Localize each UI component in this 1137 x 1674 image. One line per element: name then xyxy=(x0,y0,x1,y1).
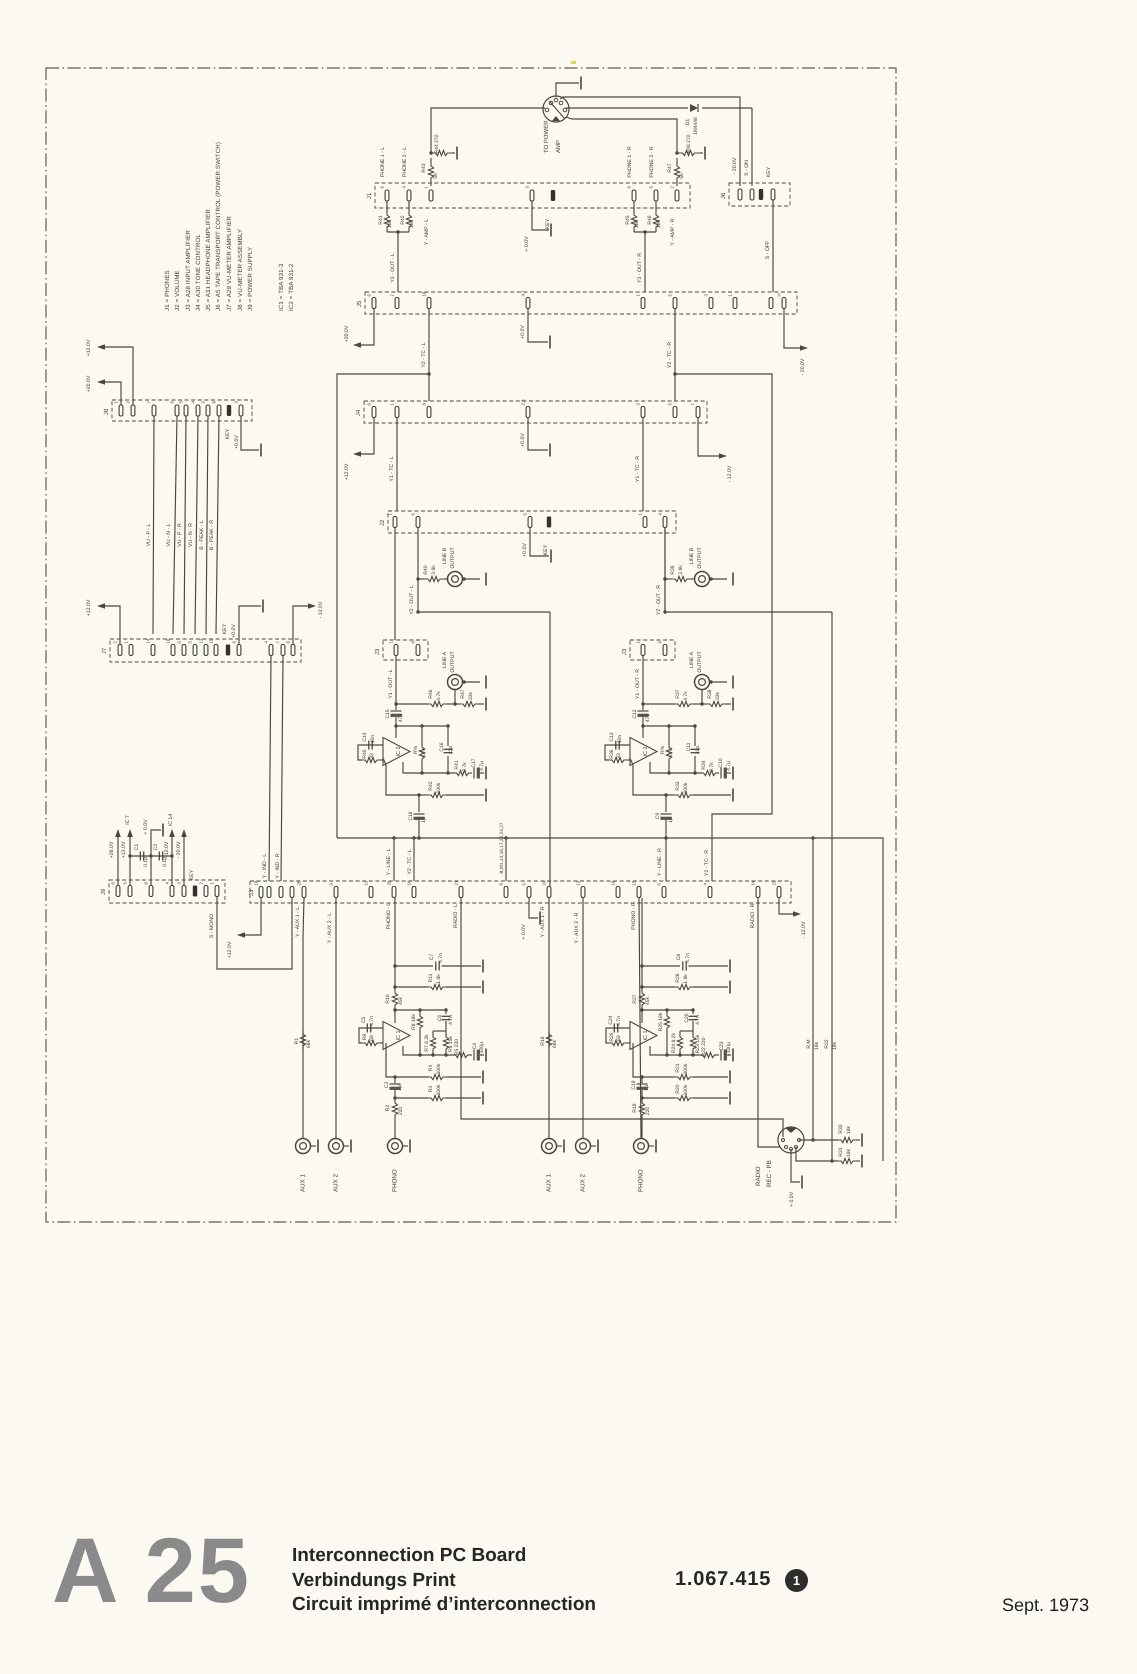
svg-text:J2 = VOLUME: J2 = VOLUME xyxy=(174,270,181,311)
svg-text:RADIO - L: RADIO - L xyxy=(453,904,459,928)
svg-text:R43: R43 xyxy=(421,163,427,172)
svg-text:18k: 18k xyxy=(846,1125,852,1134)
svg-text:1N4448: 1N4448 xyxy=(693,117,699,135)
svg-text:4.7n: 4.7n xyxy=(685,953,691,963)
svg-text:33k: 33k xyxy=(468,691,474,700)
svg-text:4.7k: 4.7k xyxy=(421,748,427,758)
svg-text:+12.0V: +12.0V xyxy=(227,941,233,958)
svg-text:18k: 18k xyxy=(846,1148,852,1157)
svg-text:J4 = A30 TONE CONTROL: J4 = A30 TONE CONTROL xyxy=(195,234,202,311)
svg-text:Y2 - TC - R: Y2 - TC - R xyxy=(704,850,710,876)
svg-text:10: 10 xyxy=(422,291,427,296)
svg-text:1: 1 xyxy=(389,641,394,644)
svg-text:6: 6 xyxy=(232,641,237,644)
svg-text:14: 14 xyxy=(751,880,756,885)
svg-text:100k: 100k xyxy=(436,1063,442,1074)
svg-text:J5: J5 xyxy=(356,300,363,307)
svg-text:+20.0V: +20.0V xyxy=(344,325,350,342)
svg-text:4.7n: 4.7n xyxy=(448,1015,454,1025)
svg-text:+12.0V: +12.0V xyxy=(344,463,350,480)
svg-text:VU - P - L: VU - P - L xyxy=(146,524,152,547)
svg-text:Y1 - TC - R: Y1 - TC - R xyxy=(635,456,641,482)
svg-text:8: 8 xyxy=(499,883,504,886)
svg-text:1µ: 1µ xyxy=(397,1085,403,1091)
svg-text:AMP: AMP xyxy=(555,140,562,153)
svg-text:R21: R21 xyxy=(675,1063,681,1072)
svg-text:1: 1 xyxy=(636,641,641,644)
svg-text:KEY: KEY xyxy=(225,428,231,439)
svg-text:Y2 - TC - L: Y2 - TC - L xyxy=(421,342,427,367)
svg-text:24: 24 xyxy=(542,880,547,885)
svg-text:OUTPUT: OUTPUT xyxy=(450,547,456,569)
svg-text:R30: R30 xyxy=(838,1124,844,1133)
svg-text:2: 2 xyxy=(199,882,204,885)
svg-text:R,M: R,M xyxy=(806,1039,812,1048)
svg-text:4.7k: 4.7k xyxy=(683,691,689,701)
svg-text:+0.0V: +0.0V xyxy=(522,543,528,557)
svg-text:100k: 100k xyxy=(436,782,442,793)
svg-text:6: 6 xyxy=(649,186,654,189)
svg-text:J3: J3 xyxy=(621,648,628,655)
svg-text:0.1µ: 0.1µ xyxy=(162,857,168,867)
svg-text:S - MONO: S - MONO xyxy=(209,914,215,938)
svg-text:8: 8 xyxy=(286,641,291,644)
svg-text:J7: J7 xyxy=(101,647,108,654)
svg-text:J2: J2 xyxy=(379,519,386,526)
svg-text:5: 5 xyxy=(523,513,528,516)
svg-text:6: 6 xyxy=(177,641,182,644)
svg-text:B - PEAK - L: B - PEAK - L xyxy=(199,520,205,550)
svg-text:100k: 100k xyxy=(683,1084,689,1095)
svg-text:68k: 68k xyxy=(306,1039,312,1048)
svg-text:R1: R1 xyxy=(294,1038,300,1045)
svg-text:+ 0.0V: + 0.0V xyxy=(524,236,530,252)
svg-text:4.7n: 4.7n xyxy=(369,1016,375,1026)
svg-text:1: 1 xyxy=(390,403,395,406)
svg-text:8: 8 xyxy=(212,401,217,404)
svg-text:R38: R38 xyxy=(707,689,713,698)
svg-text:4: 4 xyxy=(402,186,407,189)
svg-text:R37: R37 xyxy=(675,689,681,698)
svg-text:4.7k: 4.7k xyxy=(668,748,674,758)
svg-text:100: 100 xyxy=(656,220,662,229)
svg-text:R5 220: R5 220 xyxy=(454,1039,460,1055)
svg-text:6: 6 xyxy=(367,294,372,297)
svg-text:C24: C24 xyxy=(608,1015,614,1024)
svg-text:LINE A: LINE A xyxy=(689,651,695,668)
svg-text:C2: C2 xyxy=(153,844,159,851)
svg-text:PHONE 1 - R: PHONE 1 - R xyxy=(627,146,633,177)
svg-text:IC2 = TBA 931-2: IC2 = TBA 931-2 xyxy=(288,263,295,311)
svg-text:100k: 100k xyxy=(683,782,689,793)
svg-text:C10: C10 xyxy=(718,758,724,767)
svg-text:Y3 - OUT - R: Y3 - OUT - R xyxy=(637,253,643,283)
svg-text:1: 1 xyxy=(114,401,119,404)
svg-text:4: 4 xyxy=(165,882,170,885)
svg-text:2: 2 xyxy=(126,401,131,404)
svg-text:B,M1,14,16,17,22,24,27: B,M1,14,16,17,22,24,27 xyxy=(499,822,505,874)
svg-text:C13: C13 xyxy=(609,732,615,741)
svg-text:J9: J9 xyxy=(100,888,107,895)
svg-text:10: 10 xyxy=(254,880,259,885)
svg-text:Y - AUX 1 - L: Y - AUX 1 - L xyxy=(295,907,301,937)
svg-text:C8: C8 xyxy=(676,954,682,961)
svg-text:+0.0V: +0.0V xyxy=(520,325,526,339)
svg-text:J1 = PHONES: J1 = PHONES xyxy=(164,270,171,311)
svg-text:R47: R47 xyxy=(460,689,466,698)
svg-text:100k: 100k xyxy=(683,1063,689,1074)
svg-text:C3: C3 xyxy=(384,1082,390,1089)
svg-text:5: 5 xyxy=(522,883,527,886)
svg-text:C6: C6 xyxy=(437,1015,443,1022)
svg-text:- 12.0V: - 12.0V xyxy=(318,601,324,618)
svg-text:4.7n: 4.7n xyxy=(438,953,444,963)
svg-text:10n: 10n xyxy=(617,735,623,744)
svg-text:IC 14: IC 14 xyxy=(168,814,174,827)
svg-text:LINE B: LINE B xyxy=(689,547,695,564)
svg-text:R45: R45 xyxy=(362,749,368,758)
svg-text:13: 13 xyxy=(576,880,581,885)
svg-text:R26: R26 xyxy=(609,1032,615,1041)
svg-text:+0.0V: +0.0V xyxy=(520,433,526,447)
svg-text:H: H xyxy=(777,293,782,296)
svg-text:R11: R11 xyxy=(428,973,434,982)
svg-text:+0.0V: +0.0V xyxy=(234,435,240,449)
svg-text:5: 5 xyxy=(179,401,184,404)
svg-text:R8 18k: R8 18k xyxy=(411,1014,417,1030)
svg-text:3: 3 xyxy=(704,294,709,297)
svg-text:6: 6 xyxy=(367,403,372,406)
svg-text:R18: R18 xyxy=(540,1036,546,1045)
svg-text:6: 6 xyxy=(380,186,385,189)
svg-text:+100µ: +100µ xyxy=(726,1042,732,1056)
svg-text:Y - IND - R: Y - IND - R xyxy=(275,853,281,879)
svg-text:+12.0V: +12.0V xyxy=(86,339,92,356)
svg-text:R7 8.2k: R7 8.2k xyxy=(424,1034,430,1052)
svg-text:33k: 33k xyxy=(715,691,721,700)
svg-text:D1: D1 xyxy=(685,119,691,126)
svg-text:26: 26 xyxy=(297,880,302,885)
svg-text:Y1 - TC - L: Y1 - TC - L xyxy=(389,456,395,481)
svg-text:C18: C18 xyxy=(408,811,414,820)
svg-text:R41: R41 xyxy=(378,215,384,224)
svg-text:R4: R4 xyxy=(428,1065,434,1072)
svg-text:100k: 100k xyxy=(436,1084,442,1095)
svg-text:22p: 22p xyxy=(448,746,454,755)
svg-text:6: 6 xyxy=(411,641,416,644)
svg-text:Y - IND - L: Y - IND - L xyxy=(262,854,268,879)
svg-text:2: 2 xyxy=(670,186,675,189)
svg-text:2,6: 2,6 xyxy=(521,399,526,406)
svg-text:4.7µ: 4.7µ xyxy=(726,761,732,771)
svg-text:RADIO - R: RADIO - R xyxy=(750,903,756,928)
svg-text:R32: R32 xyxy=(824,1039,830,1048)
svg-text:PHONE 2 - R: PHONE 2 - R xyxy=(649,146,655,177)
svg-text:100: 100 xyxy=(387,220,393,229)
svg-text:12: 12 xyxy=(364,880,369,885)
svg-text:R28: R28 xyxy=(675,973,681,982)
svg-text:5: 5 xyxy=(123,882,128,885)
svg-text:Y - LINE - R: Y - LINE - R xyxy=(657,848,663,876)
svg-text:1: 1 xyxy=(210,882,215,885)
svg-text:4: 4 xyxy=(658,513,663,516)
svg-text:R45: R45 xyxy=(625,215,631,224)
svg-text:18k: 18k xyxy=(832,1041,838,1050)
svg-text:J3: J3 xyxy=(374,648,381,655)
svg-text:C17: C17 xyxy=(471,758,477,767)
svg-text:Y1 - OUT - L: Y1 - OUT - L xyxy=(388,669,394,698)
svg-text:5: 5 xyxy=(188,641,193,644)
svg-text:- 20.0V: - 20.0V xyxy=(800,358,806,375)
svg-text:J6: J6 xyxy=(720,192,727,199)
svg-text:IC1 = TBA 931-3: IC1 = TBA 931-3 xyxy=(278,263,285,311)
svg-text:R48 270: R48 270 xyxy=(686,134,692,153)
svg-text:33: 33 xyxy=(616,753,622,759)
svg-text:45k: 45k xyxy=(645,996,651,1005)
svg-text:R34: R34 xyxy=(701,760,707,769)
svg-text:J1: J1 xyxy=(366,192,373,199)
svg-text:R31: R31 xyxy=(838,1147,844,1156)
svg-text:3: 3 xyxy=(234,401,239,404)
svg-text:9: 9 xyxy=(201,401,206,404)
svg-text:KEY: KEY xyxy=(766,166,772,177)
svg-text:R25 18k: R25 18k xyxy=(658,1012,664,1031)
svg-text:1.8k: 1.8k xyxy=(683,974,689,984)
svg-text:68k: 68k xyxy=(552,1039,558,1048)
svg-text:R22 220: R22 220 xyxy=(701,1037,707,1056)
svg-text:21: 21 xyxy=(454,880,459,885)
svg-text:5: 5 xyxy=(668,294,673,297)
svg-text:6: 6 xyxy=(111,882,116,885)
svg-text:C25: C25 xyxy=(684,1013,690,1022)
svg-text:+0.0V: +0.0V xyxy=(231,624,237,638)
svg-text:LINE A: LINE A xyxy=(442,651,448,668)
svg-text:4: 4 xyxy=(191,401,196,404)
svg-text:Y - AUX 2 - R: Y - AUX 2 - R xyxy=(574,912,580,943)
svg-text:Y2 - TC - R: Y2 - TC - R xyxy=(667,342,673,368)
svg-text:RADIO: RADIO xyxy=(755,1166,762,1186)
svg-text:C1: C1 xyxy=(134,844,140,851)
svg-text:IC 2: IC 2 xyxy=(396,746,402,756)
svg-text:C5: C5 xyxy=(361,1017,367,1024)
svg-text:9: 9 xyxy=(329,883,334,886)
svg-text:C16: C16 xyxy=(439,742,445,751)
svg-text:Y - AMP - R: Y - AMP - R xyxy=(670,218,676,245)
svg-text:18: 18 xyxy=(611,880,616,885)
svg-text:8: 8 xyxy=(422,403,427,406)
svg-text:4: 4 xyxy=(264,641,269,644)
svg-text:Y2 - TC - L: Y2 - TC - L xyxy=(407,849,413,874)
svg-text:R%: R% xyxy=(413,745,419,754)
svg-text:R46: R46 xyxy=(647,215,653,224)
svg-text:68: 68 xyxy=(369,1035,375,1041)
svg-text:1: 1 xyxy=(636,294,641,297)
svg-text:VU - N - L: VU - N - L xyxy=(166,523,172,546)
svg-text:68: 68 xyxy=(616,1035,622,1041)
svg-text:33: 33 xyxy=(369,753,375,759)
svg-text:47µ: 47µ xyxy=(645,714,651,723)
svg-text:+12.0V: +12.0V xyxy=(86,599,92,616)
svg-text:C14: C14 xyxy=(362,732,368,741)
svg-text:J6 = A5 TAPE TRANSPORT CONTROL: J6 = A5 TAPE TRANSPORT CONTROL (POWER SW… xyxy=(215,142,222,311)
svg-text:Y3 - OUT - L: Y3 - OUT - L xyxy=(390,253,396,282)
svg-text:R36: R36 xyxy=(609,749,615,758)
svg-text:- 20.0V: - 20.0V xyxy=(732,157,738,174)
svg-text:6: 6 xyxy=(657,883,662,886)
svg-text:1.8k: 1.8k xyxy=(436,974,442,984)
svg-text:3: 3 xyxy=(636,403,641,406)
svg-text:R9: R9 xyxy=(362,1034,368,1041)
svg-text:3: 3 xyxy=(177,882,182,885)
svg-text:29: 29 xyxy=(772,880,777,885)
svg-text:16: 16 xyxy=(407,880,412,885)
svg-text:1: 1 xyxy=(638,513,643,516)
svg-text:2: 2 xyxy=(113,641,118,644)
svg-text:C19: C19 xyxy=(631,1080,637,1089)
svg-text:- 12.0V: - 12.0V xyxy=(801,921,807,938)
svg-text:18k: 18k xyxy=(814,1041,820,1050)
svg-text:1: 1 xyxy=(728,294,733,297)
svg-text:AUX 2: AUX 2 xyxy=(333,1174,340,1192)
svg-text:220: 220 xyxy=(645,1107,651,1116)
svg-text:3.9k: 3.9k xyxy=(431,565,437,575)
svg-text:22p: 22p xyxy=(695,746,701,755)
svg-text:Y - AUX 2 - L: Y - AUX 2 - L xyxy=(327,913,333,943)
svg-text:IC 1: IC 1 xyxy=(643,1030,649,1040)
svg-text:0.1µ: 0.1µ xyxy=(143,857,149,867)
svg-text:C12: C12 xyxy=(632,709,638,718)
svg-text:13: 13 xyxy=(199,638,204,643)
svg-text:4.7k: 4.7k xyxy=(436,691,442,701)
svg-text:11: 11 xyxy=(209,638,214,643)
svg-text:C11: C11 xyxy=(686,742,692,751)
svg-text:4.7n: 4.7n xyxy=(616,1016,622,1026)
svg-text:1: 1 xyxy=(124,641,129,644)
svg-text:AUX 1: AUX 1 xyxy=(546,1174,553,1192)
svg-text:AUX 2: AUX 2 xyxy=(580,1174,587,1192)
svg-text:Y2 - OUT - R: Y2 - OUT - R xyxy=(656,585,662,615)
svg-text:PHONO: PHONO xyxy=(392,1169,399,1192)
svg-text:PHONO: PHONO xyxy=(638,1169,645,1192)
svg-text:OUTPUT: OUTPUT xyxy=(697,547,703,569)
svg-text:56: 56 xyxy=(679,173,685,179)
svg-text:2.7k: 2.7k xyxy=(462,762,468,772)
svg-text:7: 7 xyxy=(276,641,281,644)
svg-text:R47: R47 xyxy=(667,163,673,172)
svg-text:6: 6 xyxy=(170,401,175,404)
svg-text:IC 1: IC 1 xyxy=(396,1030,402,1040)
svg-text:VU - N - R: VU - N - R xyxy=(188,523,194,547)
svg-text:+ 0.0V: + 0.0V xyxy=(521,924,527,940)
svg-text:- 12.0V: - 12.0V xyxy=(727,465,733,482)
svg-text:KEY: KEY xyxy=(189,869,195,880)
svg-text:6: 6 xyxy=(658,641,663,644)
svg-text:R42: R42 xyxy=(428,781,434,790)
svg-text:R42: R42 xyxy=(400,215,406,224)
svg-text:KEY: KEY xyxy=(543,544,549,555)
svg-text:R40: R40 xyxy=(423,565,429,574)
svg-text:KEY: KEY xyxy=(222,623,228,634)
svg-text:J3 = A28 INPUT AMPLIFIER: J3 = A28 INPUT AMPLIFIER xyxy=(185,230,192,311)
svg-text:R39: R39 xyxy=(670,565,676,574)
svg-text:6: 6 xyxy=(411,513,416,516)
svg-text:+28.0V: +28.0V xyxy=(109,841,115,858)
svg-text:R2: R2 xyxy=(385,1105,391,1112)
svg-text:Y - AUX 1 - R: Y - AUX 1 - R xyxy=(540,906,546,937)
svg-text:Y - AMP - L: Y - AMP - L xyxy=(424,219,430,245)
svg-text:4.7n: 4.7n xyxy=(695,1015,701,1025)
svg-text:PHONO - R: PHONO - R xyxy=(631,902,637,930)
svg-text:PHONE 2 - L: PHONE 2 - L xyxy=(402,147,408,177)
svg-text:LINE B: LINE B xyxy=(442,547,448,564)
svg-text:C4: C4 xyxy=(472,1043,478,1050)
svg-text:R24 8.2k: R24 8.2k xyxy=(671,1032,677,1053)
svg-text:4: 4 xyxy=(703,883,708,886)
svg-text:R44 270: R44 270 xyxy=(434,134,440,153)
svg-text:8: 8 xyxy=(627,186,632,189)
svg-text:R41: R41 xyxy=(454,760,460,769)
svg-text:20: 20 xyxy=(387,880,392,885)
svg-text:220: 220 xyxy=(398,1107,404,1116)
svg-text:R%: R% xyxy=(660,745,666,754)
svg-text:J4: J4 xyxy=(355,409,362,416)
svg-text:TO POWER: TO POWER xyxy=(543,120,550,153)
svg-text:J5 = A31 HEADPHONE AMPLIFIER: J5 = A31 HEADPHONE AMPLIFIER xyxy=(205,209,212,311)
svg-text:2.7k: 2.7k xyxy=(709,762,715,772)
svg-text:J3: J3 xyxy=(248,889,255,896)
svg-text:C9: C9 xyxy=(655,813,661,820)
svg-text:C15: C15 xyxy=(385,709,391,718)
svg-text:7: 7 xyxy=(147,401,152,404)
svg-text:56: 56 xyxy=(433,173,439,179)
svg-text:OUTPUT: OUTPUT xyxy=(450,651,456,673)
svg-text:15: 15 xyxy=(632,880,637,885)
svg-text:Y2 - OUT - L: Y2 - OUT - L xyxy=(409,585,415,614)
svg-text:14: 14 xyxy=(146,638,151,643)
svg-text:S - OFF: S - OFF xyxy=(765,241,771,259)
svg-text:R10: R10 xyxy=(385,994,391,1003)
svg-text:45k: 45k xyxy=(398,996,404,1005)
svg-text:REC - PB: REC - PB xyxy=(766,1160,773,1187)
svg-text:+ 0.0V: + 0.0V xyxy=(789,1191,795,1207)
svg-text:1µ: 1µ xyxy=(421,817,427,823)
svg-text:J8 = VU-METER ASSEMBLY: J8 = VU-METER ASSEMBLY xyxy=(237,229,244,311)
svg-text:B - PEAK - R: B - PEAK - R xyxy=(209,520,215,551)
svg-text:J8: J8 xyxy=(103,408,110,415)
svg-text:5: 5 xyxy=(668,403,673,406)
svg-text:PHONE 1 - L: PHONE 1 - L xyxy=(380,147,386,177)
svg-text:C7: C7 xyxy=(429,954,435,961)
svg-text:2: 2 xyxy=(390,294,395,297)
svg-text:R27: R27 xyxy=(632,994,638,1003)
svg-text:1µ: 1µ xyxy=(644,1085,650,1091)
svg-text:+20.0V: +20.0V xyxy=(86,375,92,392)
svg-text:J9 = POWER SUPPLY: J9 = POWER SUPPLY xyxy=(247,247,254,311)
svg-text:4,7: 4,7 xyxy=(521,290,526,297)
svg-text:R33: R33 xyxy=(675,781,681,790)
svg-text:- 20.0V: - 20.0V xyxy=(176,841,182,858)
svg-text:+12.0V: +12.0V xyxy=(121,841,127,858)
svg-text:1µ: 1µ xyxy=(668,817,674,823)
svg-text:AUX 1: AUX 1 xyxy=(300,1174,307,1192)
svg-text:3: 3 xyxy=(525,186,530,189)
svg-text:1: 1 xyxy=(424,186,429,189)
svg-text:10n: 10n xyxy=(370,735,376,744)
svg-text:IC 7: IC 7 xyxy=(125,815,131,825)
svg-text:S - ON: S - ON xyxy=(744,160,750,176)
svg-text:VU - P - R: VU - P - R xyxy=(177,523,183,547)
svg-text:+ 0.0V: + 0.0V xyxy=(143,819,149,835)
